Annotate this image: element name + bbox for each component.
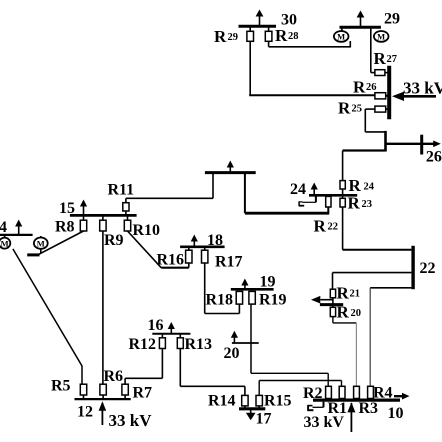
svg-text:R6: R6 — [104, 368, 124, 385]
svg-text:R11: R11 — [108, 182, 135, 199]
svg-text:M: M — [1, 238, 9, 248]
svg-text:12: 12 — [77, 404, 93, 421]
svg-text:R10: R10 — [133, 222, 161, 239]
svg-text:22: 22 — [328, 222, 339, 233]
svg-text:R13: R13 — [185, 336, 213, 353]
svg-text:R: R — [337, 284, 350, 303]
svg-text:R8: R8 — [55, 219, 75, 236]
svg-text:22: 22 — [420, 260, 436, 277]
svg-text:20: 20 — [351, 308, 362, 319]
svg-text:R4: R4 — [373, 385, 393, 402]
svg-text:R2: R2 — [303, 385, 323, 402]
svg-text:R15: R15 — [264, 393, 292, 410]
svg-text:24: 24 — [290, 181, 306, 198]
svg-text:R12: R12 — [129, 336, 157, 353]
svg-text:15: 15 — [59, 200, 75, 217]
svg-text:29: 29 — [384, 11, 400, 28]
svg-text:R7: R7 — [133, 385, 153, 402]
svg-text:21: 21 — [350, 289, 361, 300]
svg-text:R9: R9 — [104, 232, 124, 249]
svg-text:R: R — [353, 78, 366, 97]
svg-text:19: 19 — [260, 274, 276, 291]
svg-text:R: R — [338, 99, 351, 118]
svg-text:24: 24 — [364, 182, 375, 193]
svg-text:R: R — [348, 194, 361, 213]
svg-text:R: R — [275, 26, 288, 45]
svg-text:R: R — [374, 49, 387, 68]
svg-text:10: 10 — [388, 405, 404, 422]
svg-text:14: 14 — [0, 219, 7, 236]
svg-text:R16: R16 — [157, 252, 185, 269]
svg-text:27: 27 — [387, 54, 398, 65]
svg-text:16: 16 — [148, 317, 164, 334]
svg-text:R14: R14 — [208, 393, 236, 410]
svg-text:R: R — [214, 27, 227, 46]
svg-text:23: 23 — [362, 199, 373, 210]
svg-text:M: M — [337, 32, 345, 42]
svg-text:R3: R3 — [359, 400, 379, 417]
svg-text:R19: R19 — [259, 292, 287, 309]
svg-text:R: R — [349, 176, 362, 195]
svg-text:33 kV: 33 kV — [403, 79, 442, 98]
svg-text:M: M — [37, 238, 45, 248]
svg-text:26: 26 — [366, 82, 377, 93]
svg-text:M: M — [377, 32, 385, 42]
svg-text:25: 25 — [352, 104, 363, 115]
svg-text:26: 26 — [426, 149, 442, 166]
svg-text:R: R — [337, 303, 350, 322]
svg-text:R1: R1 — [328, 400, 348, 417]
svg-text:28: 28 — [288, 31, 299, 42]
svg-text:R5: R5 — [51, 378, 71, 395]
svg-text:20: 20 — [224, 345, 240, 362]
svg-text:17: 17 — [256, 411, 272, 428]
svg-text:29: 29 — [228, 32, 239, 43]
svg-text:R18: R18 — [206, 292, 234, 309]
svg-text:33 kV: 33 kV — [109, 411, 153, 430]
svg-text:R17: R17 — [215, 254, 243, 271]
svg-text:18: 18 — [207, 232, 223, 249]
svg-text:R: R — [314, 217, 327, 236]
